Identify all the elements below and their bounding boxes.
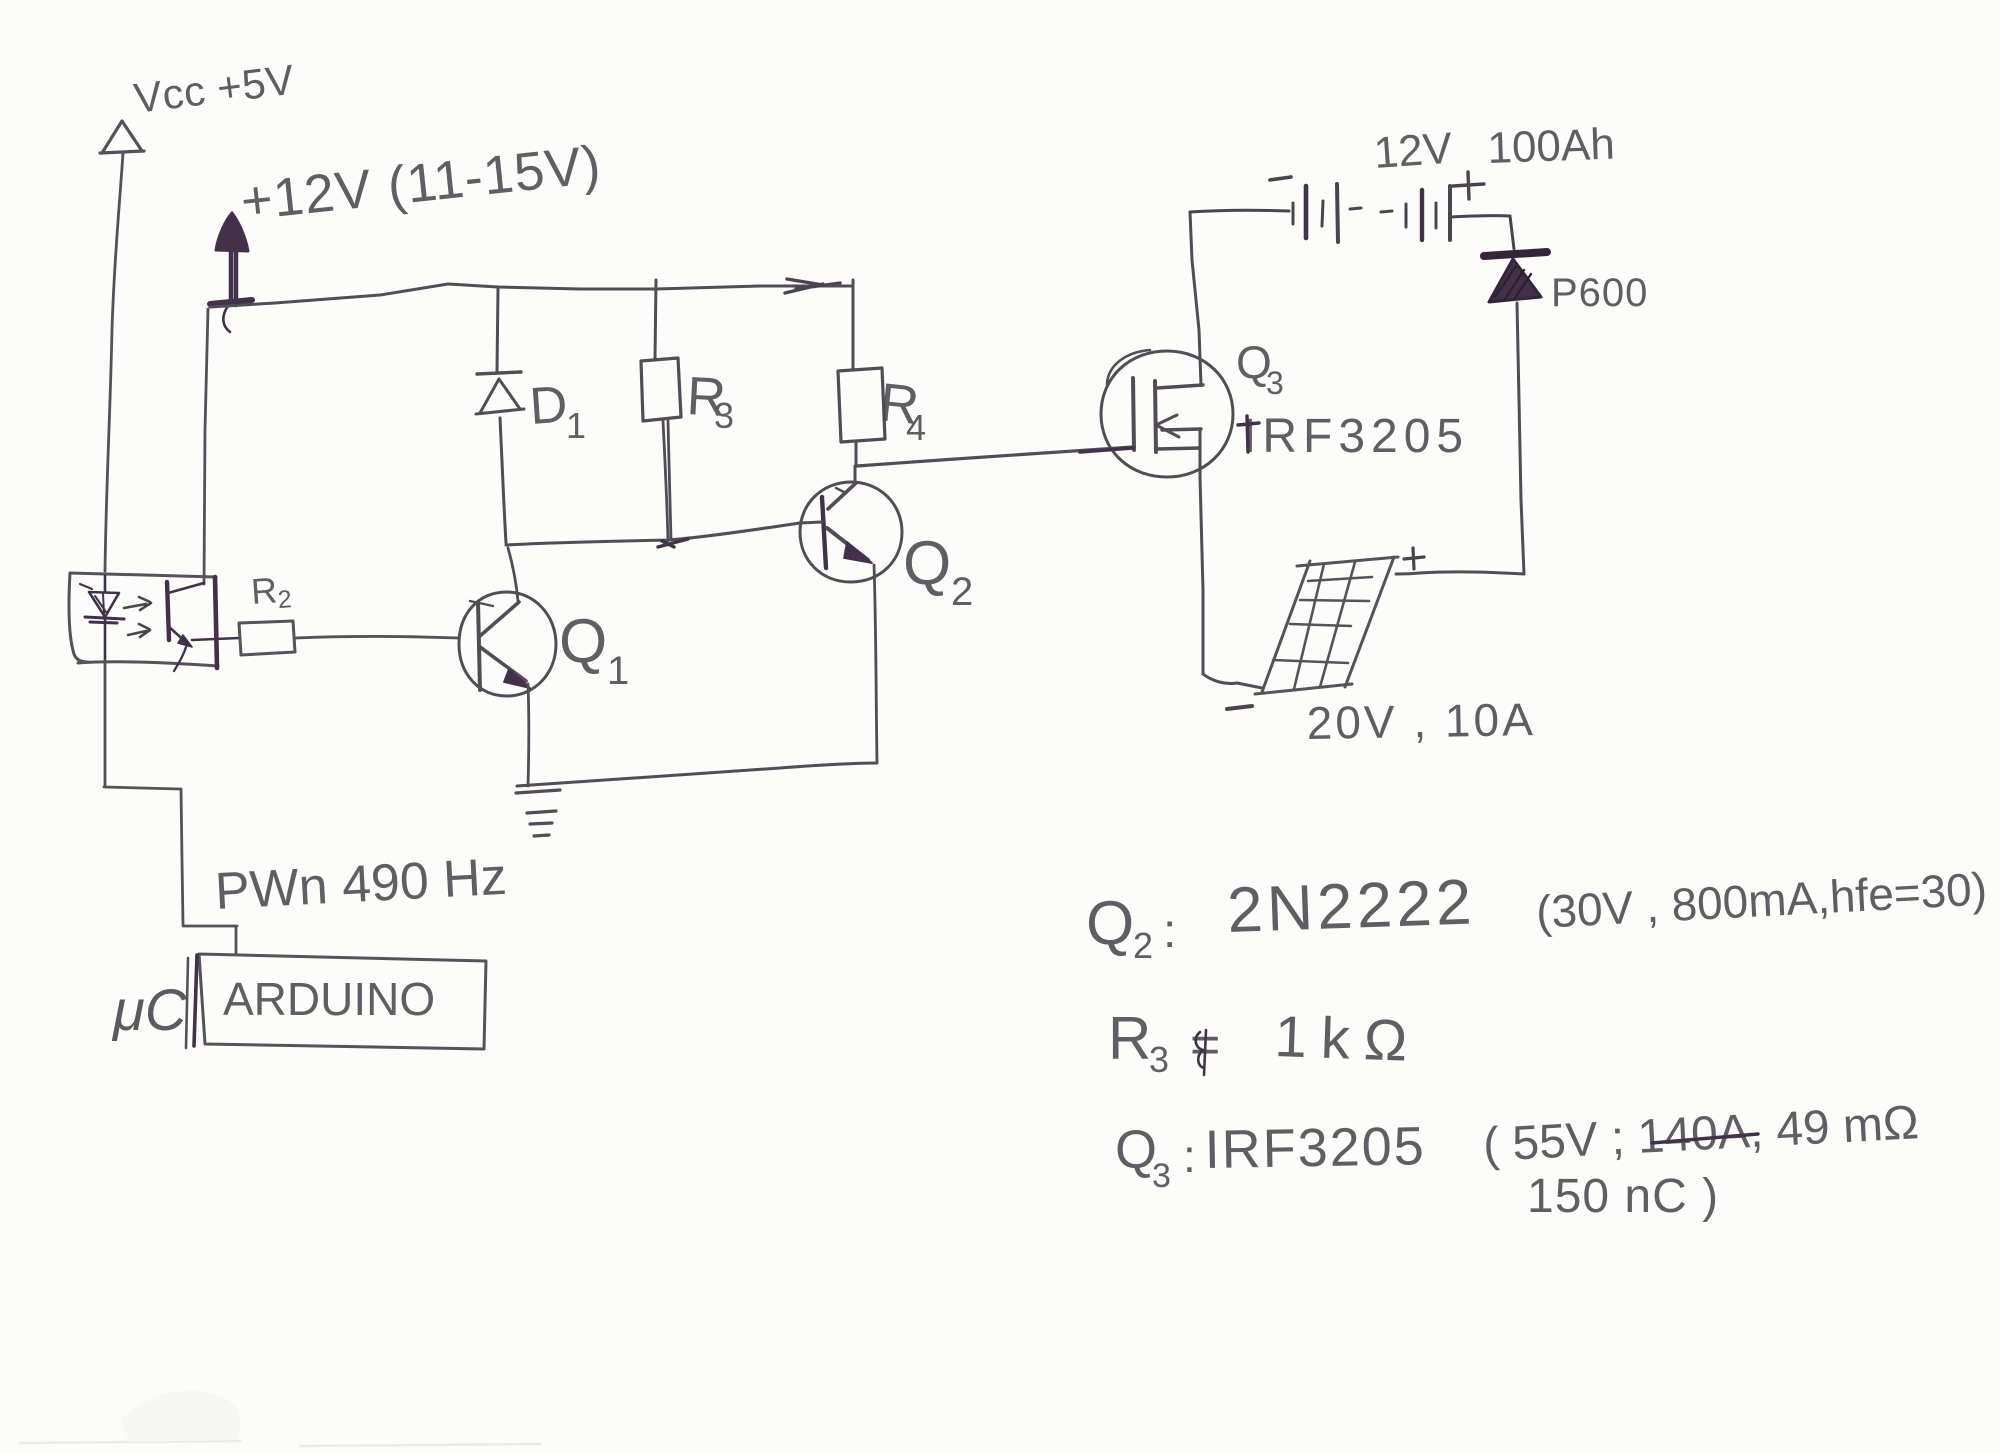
arrow on +12V rail [785, 279, 840, 293]
svg-text:IRF3205: IRF3205 [1243, 410, 1469, 463]
resistor R3 [641, 280, 681, 541]
svg-text:R2: R2 [250, 568, 293, 616]
resistor R2 [239, 621, 295, 655]
mosfet Q3 [1101, 350, 1233, 477]
svg-text:1: 1 [566, 405, 586, 446]
wire Q1 collector riser [508, 548, 518, 601]
svg-text:100Ah: 100Ah [1487, 120, 1616, 173]
svg-text:3: 3 [1266, 365, 1284, 401]
svg-text:IRF3205: IRF3205 [1204, 1116, 1426, 1180]
microcontroller box ARDUINO [186, 954, 486, 1049]
svg-text:12V: 12V [1372, 124, 1454, 178]
optocoupler phototransistor [167, 582, 239, 671]
battery plus sign [1453, 172, 1484, 199]
svg-text:2: 2 [951, 570, 973, 614]
svg-text:3: 3 [714, 395, 734, 436]
svg-text::: : [1183, 1130, 1196, 1182]
svg-text:(30V , 800mA,hfe=30): (30V , 800mA,hfe=30) [1535, 862, 1988, 938]
wire Q3 gate lead overdraw [1080, 448, 1133, 452]
wire LED cathode to PWM node [104, 661, 237, 953]
svg-text:Vcc +5V: Vcc +5V [131, 56, 297, 122]
power flag Vcc +5V [100, 121, 144, 571]
wire ground rail [517, 763, 877, 786]
solar panel PV1 [1255, 557, 1398, 694]
ground [516, 790, 560, 836]
svg-text:+12V (11-15V): +12V (11-15V) [238, 134, 604, 231]
svg-text:ARDUINO: ARDUINO [223, 973, 435, 1025]
transistor Q1 [459, 592, 556, 696]
svg-text:Q: Q [559, 607, 607, 676]
svg-text:D: D [528, 375, 570, 435]
wire +12V rail [210, 284, 851, 307]
wire P600 to panel plus [1396, 303, 1524, 574]
svg-text:150 nC ): 150 nC ) [1527, 1170, 1719, 1223]
label panel minus [1227, 706, 1252, 709]
scanner smudge bottom left [20, 1441, 540, 1446]
svg-text::: : [1163, 905, 1176, 958]
svg-text:Q: Q [903, 529, 951, 598]
optocoupler U1 box [69, 573, 218, 668]
diode D1 [476, 288, 524, 543]
svg-text:1kΩ: 1kΩ [1274, 1004, 1423, 1074]
optocoupler LED [80, 576, 124, 661]
battery minus sign [1270, 177, 1291, 180]
svg-text:2N2222: 2N2222 [1226, 865, 1477, 946]
wire Q1 emitter down [527, 684, 531, 786]
wire R4/Q2 collector node to Q3 gate [857, 447, 1133, 466]
svg-text:2: 2 [1133, 925, 1153, 966]
svg-text:R: R [1108, 1005, 1151, 1072]
transistor Q2 [800, 482, 902, 582]
wire R4 bottom to Q2 collector [854, 466, 857, 484]
svg-text:20V , 10A: 20V , 10A [1306, 693, 1536, 749]
diode P600 [1484, 252, 1547, 302]
svg-text:Q: Q [1115, 1120, 1157, 1180]
wire R2 to Q1 base [296, 637, 459, 639]
resistor R4 [838, 280, 885, 466]
svg-text:μC: μC [111, 978, 188, 1043]
wire Q3 drain to battery minus [1190, 212, 1201, 385]
wire Q3 source to panel minus [1203, 674, 1262, 688]
junction R3 bottom [658, 539, 688, 547]
wire battery plus to P600 [1510, 216, 1514, 249]
svg-text:P600: P600 [1551, 271, 1648, 315]
battery BT1 12V 100Ah [1190, 184, 1510, 242]
svg-text:( 55V ; 140A, 49 mΩ: ( 55V ; 140A, 49 mΩ [1482, 1096, 1920, 1172]
svg-text:Q: Q [1086, 889, 1134, 958]
svg-text:3: 3 [1152, 1157, 1171, 1195]
optocoupler light arrows [124, 597, 151, 637]
label panel plus [1404, 548, 1424, 569]
svg-text:PWn 490 Hz: PWn 490 Hz [214, 848, 509, 921]
wire base rail D1/R3/Q2 [506, 523, 800, 545]
svg-text:3: 3 [1149, 1039, 1169, 1080]
wire Q2 emitter down [874, 565, 877, 762]
svg-text:1: 1 [607, 649, 629, 693]
wire Q3 source down to panel [1200, 477, 1203, 674]
svg-text:4: 4 [906, 407, 926, 448]
power flag +12V [210, 213, 252, 332]
wire +12V rail to optocoupler collector [204, 309, 208, 584]
